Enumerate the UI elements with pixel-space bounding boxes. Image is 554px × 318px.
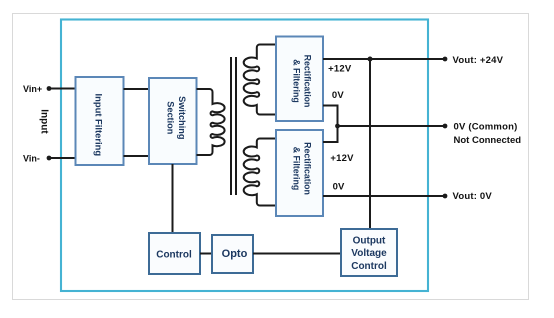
block Switching Section xyxy=(149,78,197,164)
svg-text:Input Filtering: Input Filtering xyxy=(94,94,105,157)
wire Opto to Output Voltage Control xyxy=(253,253,341,255)
wire Input Filtering to Switching Section (top) xyxy=(124,88,150,90)
block Output Voltage Control xyxy=(341,229,397,276)
svg-text:Vout: 0V: Vout: 0V xyxy=(453,191,493,202)
block Input Filtering xyxy=(76,77,124,165)
block Rectification & Filtering (bottom) xyxy=(276,130,323,216)
node Vout 0V terminal xyxy=(443,194,448,199)
wire bottom box +12V lead xyxy=(323,126,338,142)
node 0V common terminal xyxy=(443,124,448,129)
transformer T1 secondary winding (bottom) xyxy=(244,139,276,206)
transformer T1 secondary winding (top) xyxy=(244,45,276,115)
svg-text:Not Connected: Not Connected xyxy=(454,135,522,146)
wire 0V output rail xyxy=(323,195,445,197)
node junction on +24V rail xyxy=(368,57,373,62)
svg-text:Vin-: Vin- xyxy=(23,153,40,163)
node common junction xyxy=(335,124,340,129)
block Control xyxy=(149,233,200,274)
wire Vin+ to Input Filtering xyxy=(49,88,76,90)
svg-text:SwitchingSection: SwitchingSection xyxy=(165,96,187,139)
wire Input Filtering to Switching Section (bottom) xyxy=(124,155,150,157)
svg-text:Rectification& Filtering: Rectification& Filtering xyxy=(291,142,312,195)
svg-text:OutputVoltageControl: OutputVoltageControl xyxy=(351,236,387,273)
svg-text:+12V: +12V xyxy=(328,64,352,75)
supply enclosure boundary xyxy=(61,20,428,292)
wire Control to Opto xyxy=(200,253,212,255)
svg-text:Control: Control xyxy=(156,250,192,261)
svg-text:Opto: Opto xyxy=(222,248,248,260)
wire +24V output rail xyxy=(323,58,445,60)
svg-text:Input: Input xyxy=(39,109,50,134)
svg-text:+12V: +12V xyxy=(330,153,354,164)
node Vin+ xyxy=(47,86,52,91)
svg-text:Vout: +24V: Vout: +24V xyxy=(453,55,504,66)
wire 0V common rail xyxy=(338,125,446,127)
wire top box 0V lead xyxy=(323,106,338,127)
svg-text:0V (Common): 0V (Common) xyxy=(454,122,518,133)
transformer T1 core xyxy=(230,57,232,195)
svg-text:Rectification& Filtering: Rectification& Filtering xyxy=(291,55,312,108)
svg-text:0V: 0V xyxy=(332,90,344,101)
block Rectification & Filtering (top) xyxy=(276,37,323,122)
wire Vin- to Input Filtering xyxy=(49,157,76,159)
node Vout +24V terminal xyxy=(443,57,448,62)
transformer T1 primary winding xyxy=(197,89,225,155)
block Opto xyxy=(212,235,253,273)
svg-text:Vin+: Vin+ xyxy=(23,84,42,94)
svg-text:0V: 0V xyxy=(333,182,345,193)
node Vin- xyxy=(47,156,52,161)
wire Switching Section to Control xyxy=(172,164,174,233)
wire voltage sense line xyxy=(369,59,371,229)
